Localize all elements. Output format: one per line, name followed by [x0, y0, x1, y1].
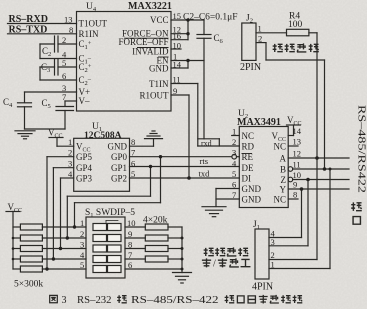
svg-text:3: 3: [271, 237, 275, 247]
svg-text:9: 9: [128, 229, 132, 239]
svg-text:NC: NC: [242, 131, 255, 141]
svg-text:3: 3: [68, 159, 72, 169]
svg-text:txd: txd: [199, 168, 211, 178]
wire NC pin8 stub: [288, 198, 298, 200]
svg-text:6: 6: [128, 260, 132, 270]
wire Y to J1 pin4: [269, 189, 302, 238]
svg-text:DE: DE: [242, 163, 254, 173]
svg-text:RD: RD: [242, 142, 255, 152]
capacitor C3: [40, 59, 77, 80]
node Y branch: [300, 187, 304, 191]
svg-text:15: 15: [173, 11, 182, 21]
svg-text:2PIN: 2PIN: [240, 62, 261, 73]
resistor 20k row1: [125, 224, 182, 230]
capacitor C4 on V+: [18, 92, 77, 129]
wire T1IN pin11 to rxd: [171, 84, 219, 147]
resistor 20k row3: [125, 246, 182, 252]
node B termination: [323, 167, 332, 171]
ground under C4/C5: [15, 131, 35, 139]
bubble RE pin3: [232, 154, 237, 159]
resistor R4: [287, 29, 309, 36]
svg-text:MAX3221: MAX3221: [128, 1, 172, 12]
svg-text:4PIN: 4PIN: [252, 282, 273, 293]
svg-text:10: 10: [293, 170, 302, 180]
resistor network 5x300k row5: [13, 266, 86, 272]
node GP1 branch: [149, 165, 152, 168]
wire NC pin13 stub: [288, 145, 298, 147]
node GP0 branch: [159, 155, 162, 158]
svg-text:3: 3: [80, 240, 84, 250]
svg-text:1: 1: [232, 127, 236, 137]
svg-text:11: 11: [293, 160, 301, 170]
wire U2 Vcc pin14: [287, 125, 301, 136]
svg-text:14: 14: [293, 126, 302, 136]
CJK drawn glyphs: [50, 43, 367, 303]
wire vcc tie vertical: [187, 20, 189, 40]
wire FORCE-ON pin12 tie: [171, 33, 188, 35]
svg-text:R1IN: R1IN: [79, 29, 100, 39]
node S1 pin5: [45, 267, 48, 270]
svg-text:3: 3: [62, 295, 67, 306]
svg-text:VCC: VCC: [150, 15, 169, 25]
wire Z to J1 pin3: [269, 180, 308, 246]
svg-text:5×300k: 5×300k: [14, 280, 43, 290]
wire A to J1 pin2: [269, 259, 317, 261]
svg-text:10: 10: [173, 41, 182, 51]
caption CJK: 到: [117, 295, 127, 303]
svg-text:1: 1: [80, 218, 84, 228]
resistor network 5x300k row4: [13, 256, 86, 262]
svg-text:6: 6: [62, 71, 66, 81]
label 半/全双工 half/full duplex: [202, 258, 211, 267]
capacitor C2: [40, 36, 77, 59]
svg-text:1: 1: [258, 24, 262, 34]
wire line A pin12: [288, 157, 349, 159]
svg-text:8: 8: [131, 137, 135, 147]
svg-text:RS–232: RS–232: [77, 295, 112, 306]
bubble B pin11: [288, 167, 293, 172]
wire rxd line to RD: [198, 145, 240, 147]
svg-text:V–: V–: [79, 96, 90, 106]
svg-text:13: 13: [64, 15, 73, 25]
wire J2 pin2 to B: [256, 43, 325, 169]
wire GP2/txd line to DI: [130, 177, 240, 179]
svg-text:NC: NC: [273, 195, 286, 205]
svg-text:2: 2: [258, 34, 262, 44]
wire J2 pin1 to R4: [256, 32, 287, 34]
svg-text:4×20k: 4×20k: [143, 216, 168, 226]
overlines: [124, 38, 169, 57]
svg-text:7: 7: [232, 190, 236, 200]
resistor network 5x300k row3: [13, 246, 86, 252]
svg-text:9: 9: [293, 180, 297, 190]
svg-text:6: 6: [131, 159, 135, 169]
node Z branch: [306, 178, 310, 182]
svg-text:8: 8: [128, 240, 132, 250]
svg-text:100: 100: [288, 20, 303, 30]
svg-text:8: 8: [293, 190, 297, 200]
wire FORCE-OFF pin16 tie: [171, 39, 188, 41]
svg-text:Y: Y: [280, 185, 287, 195]
wire VCC pin15 to C6: [171, 20, 204, 35]
resistor network 5x300k row2: [13, 235, 86, 241]
wire NC pin1 stub: [232, 135, 240, 137]
wire INVALID pin10 stub: [171, 48, 181, 50]
label 终端跳线 terminal jumper: [273, 44, 283, 52]
svg-text:5: 5: [80, 260, 84, 270]
svg-text:GP3: GP3: [76, 173, 93, 183]
wire GND pin6 pin7 to ground: [216, 189, 239, 207]
svg-text:GND: GND: [242, 195, 262, 205]
ground rail right of 20k: [181, 227, 183, 273]
node S1 pin3: [59, 247, 62, 250]
svg-text:DI: DI: [242, 174, 252, 184]
connector J1 body: [255, 229, 269, 279]
svg-text:3: 3: [232, 148, 236, 158]
svg-text:NC: NC: [273, 142, 286, 152]
bubble Z pin10: [288, 177, 293, 182]
svg-text:Z: Z: [281, 175, 287, 185]
svg-text:GP1: GP1: [111, 163, 127, 173]
wire RS-RXD to pin 13: [8, 23, 77, 25]
svg-text:A: A: [280, 154, 287, 164]
switch S1 body: [86, 217, 125, 278]
svg-text:2: 2: [80, 229, 84, 239]
wire line Y pin9: [288, 188, 349, 190]
node ground rail taps: [181, 237, 184, 271]
overline RE: [242, 153, 253, 155]
wire EN pin1 to gnd: [171, 60, 204, 62]
resistor 20k row2: [125, 235, 182, 241]
svg-text:RS–485/RS–422: RS–485/RS–422: [131, 295, 219, 306]
node Vcc rail taps: [12, 237, 15, 261]
wire RE stub: [237, 156, 240, 158]
node S1 pin4: [52, 257, 55, 260]
wire RS-TXD to pin 8: [8, 33, 77, 35]
svg-text:R1OUT: R1OUT: [140, 91, 170, 101]
svg-text:5: 5: [131, 169, 135, 179]
svg-text:8: 8: [69, 25, 73, 35]
svg-text:rts: rts: [200, 156, 209, 166]
svg-text:GP5: GP5: [76, 152, 93, 162]
svg-text:2: 2: [232, 137, 236, 147]
Vcc rail bottom left: [6, 212, 20, 270]
wire GP5 pin2: [47, 157, 74, 269]
wire S1 pin6 to ground rail: [125, 268, 182, 270]
svg-text:GP4: GP4: [76, 163, 93, 173]
svg-text:GND: GND: [108, 142, 128, 152]
svg-text:6: 6: [232, 180, 236, 190]
capacitor C5 on V-: [25, 101, 77, 129]
svg-text:12C508A: 12C508A: [84, 131, 122, 141]
connector J2 body: [242, 23, 256, 60]
svg-text:2: 2: [68, 148, 72, 158]
wire line B pin11: [293, 168, 349, 170]
svg-text:7: 7: [128, 250, 132, 260]
svg-text:7: 7: [62, 92, 66, 102]
svg-text:12: 12: [293, 149, 302, 159]
wire GP1 line to DE (rts): [67, 167, 239, 239]
svg-text:1: 1: [68, 137, 72, 147]
svg-text:2: 2: [62, 35, 66, 45]
wire GP3 pin4: [61, 178, 74, 249]
svg-text:14: 14: [173, 60, 182, 70]
wire GND pin14: [171, 61, 188, 69]
wire Vcc to U1 pin1: [49, 138, 74, 147]
ground under 20k rail: [173, 273, 192, 284]
svg-text:T1OUT: T1OUT: [79, 19, 108, 29]
node EN/GND tie: [186, 59, 189, 62]
svg-text:C2–C6=0.1μF: C2–C6=0.1μF: [183, 13, 238, 23]
node VCC/FORCE-ON/FORCE-OFF tie: [186, 18, 189, 35]
svg-text:RS–485/RS422: RS–485/RS422: [356, 105, 367, 193]
svg-text:/: /: [213, 259, 216, 270]
switch rockers: [93, 224, 121, 273]
svg-text:9: 9: [173, 86, 177, 96]
wire line Z pin10: [293, 179, 349, 181]
caption CJK: 接口的智能转换: [225, 295, 235, 303]
svg-text:GND: GND: [242, 184, 262, 194]
svg-text:GP2: GP2: [111, 173, 127, 183]
node A termination: [315, 156, 319, 160]
wire GP4 pin3: [53, 168, 73, 259]
wire GP0 line to RE: [75, 157, 232, 227]
svg-text:1: 1: [271, 260, 275, 270]
svg-text:5: 5: [232, 169, 236, 179]
svg-text:5: 5: [62, 58, 66, 68]
IC U4 MAX3221 body: [77, 12, 172, 112]
resistor 20k row4: [125, 256, 182, 262]
IC U2 MAX3491 body: [239, 127, 288, 208]
node S1 pin1: [73, 225, 76, 228]
caption CJK: 图: [50, 295, 58, 302]
svg-text:MAX3491: MAX3491: [237, 117, 281, 128]
svg-text:RS–TXD: RS–TXD: [9, 24, 48, 35]
node S1 pin2: [66, 236, 69, 239]
svg-text:11: 11: [173, 75, 181, 85]
resistor network 5x300k row1: [13, 224, 86, 230]
wire B to J1 pin1: [269, 169, 330, 269]
svg-text:B: B: [280, 165, 286, 175]
svg-text:7: 7: [131, 148, 135, 158]
svg-text:rxd: rxd: [201, 139, 212, 148]
wire U1 GND pin8 to ground: [130, 139, 154, 146]
svg-text:T1IN: T1IN: [149, 79, 169, 89]
ground above U1 pin8 (inverted): [145, 131, 163, 139]
wire R1OUT pin9 to txd: [171, 95, 189, 178]
IC U1 12C508A body: [74, 138, 130, 191]
svg-text:GND: GND: [149, 64, 169, 74]
svg-text:16: 16: [173, 31, 182, 41]
ground under U2: [202, 207, 226, 217]
label 跳线选择 jumper select: [204, 248, 214, 256]
wire R4 to A: [309, 33, 317, 260]
svg-text:GP0: GP0: [111, 152, 128, 162]
svg-text:2: 2: [271, 250, 275, 260]
node txd junction R1OUT/GP2/DI: [187, 176, 191, 180]
svg-text:13: 13: [293, 137, 302, 147]
svg-text:10: 10: [127, 218, 136, 228]
capacitor C6: [197, 35, 211, 139]
